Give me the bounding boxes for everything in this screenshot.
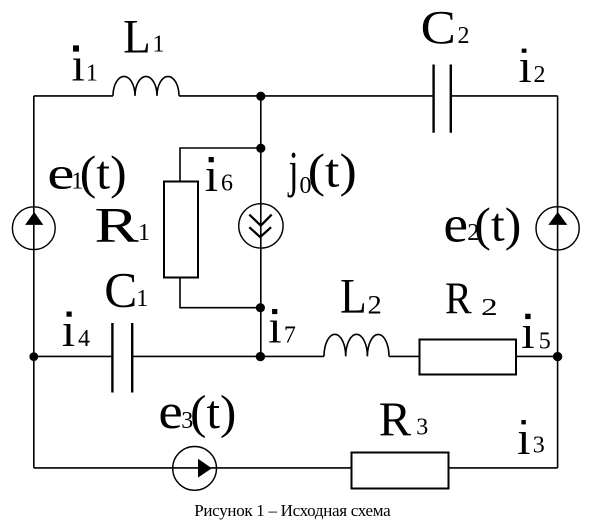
svg-text:j: j (287, 141, 299, 198)
svg-text:ı: ı (519, 40, 532, 93)
label i2 (519, 40, 546, 93)
resistor R2 (420, 340, 517, 375)
label e3(t) (158, 384, 236, 439)
source j0 chevron 2 (249, 227, 271, 237)
wire top-left segment (34, 95, 113, 97)
svg-text:(t): (t) (474, 198, 521, 251)
svg-text:3: 3 (533, 433, 545, 459)
label R3 (379, 394, 429, 447)
node i7 (256, 352, 265, 361)
wire top middle segment (179, 95, 433, 97)
svg-text:Рисунок 1 – Исходная схема: Рисунок 1 – Исходная схема (194, 501, 391, 520)
svg-text:2: 2 (458, 23, 470, 49)
svg-text:R: R (94, 197, 139, 252)
resistor R3 (352, 453, 449, 489)
label i1 (72, 39, 98, 92)
capacitor C1 (111, 323, 113, 393)
source e3 arrow (198, 459, 212, 478)
source e2 circle (536, 207, 579, 250)
wire R1 branch top (180, 148, 261, 181)
svg-text:(t): (t) (190, 386, 236, 439)
node top center (256, 92, 265, 101)
label C2 (421, 1, 470, 54)
wire center vertical (260, 96, 262, 357)
svg-text:2: 2 (368, 291, 382, 320)
source e1 circle (12, 207, 55, 250)
wire R1 branch bottom (180, 278, 261, 308)
inductor L2 (324, 334, 389, 356)
source j0 chevron 1 (249, 215, 271, 226)
label i3 (517, 412, 545, 465)
wire bottom horizontal (34, 467, 558, 469)
node left middle (29, 352, 38, 361)
svg-text:R: R (445, 274, 472, 324)
node i5 right (553, 352, 562, 361)
svg-text:7: 7 (284, 323, 296, 349)
source e3 circle (173, 447, 217, 491)
resistor R1 (164, 182, 198, 278)
label R2 (445, 274, 498, 324)
svg-text:2: 2 (481, 295, 498, 321)
svg-text:4: 4 (78, 326, 90, 352)
label e2(t) (443, 195, 521, 253)
wire right vertical (557, 96, 559, 468)
label L2 (340, 269, 382, 324)
source e2 arrow (548, 212, 567, 225)
svg-text:e: e (443, 195, 468, 253)
svg-text:3: 3 (416, 415, 428, 441)
capacitor C2 (432, 65, 434, 133)
label i6 (205, 149, 233, 202)
svg-text:C: C (104, 263, 137, 318)
wire middle horizontal left (34, 355, 112, 357)
svg-text:1: 1 (86, 61, 98, 87)
wire L2 to R2 (389, 355, 419, 357)
label i7 (268, 301, 296, 354)
svg-text:L: L (340, 269, 367, 324)
wire top right segment (451, 95, 558, 97)
svg-text:e: e (158, 384, 182, 439)
label R1 (94, 197, 150, 252)
svg-text:(t): (t) (308, 145, 357, 198)
inductor L1 (113, 76, 179, 96)
label i4 (62, 304, 90, 357)
label j0(t) (287, 141, 357, 199)
svg-text:1: 1 (153, 32, 165, 58)
svg-text:ı: ı (268, 301, 281, 354)
svg-text:(t): (t) (80, 147, 127, 200)
node R1 top (256, 144, 265, 153)
wire middle horizontal center (133, 355, 324, 357)
source e1 arrow (25, 212, 43, 225)
svg-text:2: 2 (534, 62, 546, 88)
svg-text:1: 1 (138, 220, 150, 246)
label i5 (521, 306, 551, 359)
svg-text:ı: ı (205, 149, 218, 202)
label L1 (123, 10, 164, 64)
wire R2 to right (517, 355, 558, 357)
node R1 bottom (256, 303, 265, 312)
svg-text:5: 5 (539, 329, 551, 355)
label C1 (104, 263, 148, 318)
svg-text:6: 6 (221, 171, 233, 197)
svg-text:1: 1 (136, 286, 148, 312)
wire left vertical (33, 96, 35, 468)
svg-text:L: L (123, 10, 151, 64)
svg-text:R: R (379, 394, 412, 447)
svg-text:C: C (421, 1, 456, 54)
source j0 circle (239, 204, 283, 248)
label e1(t) (47, 147, 126, 200)
